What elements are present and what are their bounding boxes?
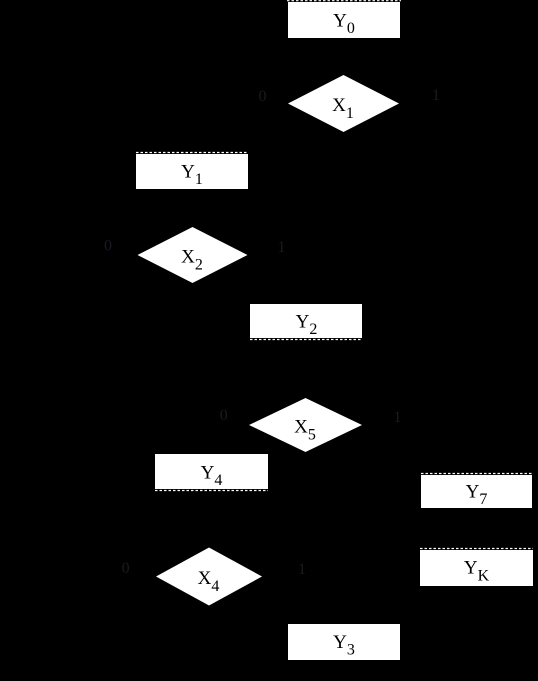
decision X1 xyxy=(288,75,399,132)
svg-text:1: 1 xyxy=(278,239,286,256)
block Y2 xyxy=(250,304,362,338)
svg-text:1: 1 xyxy=(298,561,306,578)
dashed mark below block Y4 xyxy=(155,490,268,492)
block Y1 xyxy=(136,154,248,189)
dashed mark above block YK xyxy=(420,548,533,550)
svg-text:0: 0 xyxy=(259,88,267,105)
dashed mark above block Y1 xyxy=(136,152,248,154)
block Y4 xyxy=(155,454,268,489)
dashed mark below block Y2 xyxy=(250,339,362,341)
svg-text:0: 0 xyxy=(220,407,228,424)
dashed mark above block Y7 xyxy=(421,473,532,475)
svg-text:0: 0 xyxy=(122,560,130,577)
decision X4 xyxy=(156,548,262,606)
block Y7 xyxy=(421,475,532,508)
decision X2 xyxy=(138,227,248,283)
dashed mark above block Y0 xyxy=(287,0,401,2)
block YK xyxy=(420,550,533,586)
svg-text:1: 1 xyxy=(432,87,440,104)
svg-text:0: 0 xyxy=(104,238,112,255)
decision X5 xyxy=(249,398,362,452)
block Y3 xyxy=(288,624,400,660)
block Y0 xyxy=(288,2,400,38)
svg-text:1: 1 xyxy=(394,409,402,426)
